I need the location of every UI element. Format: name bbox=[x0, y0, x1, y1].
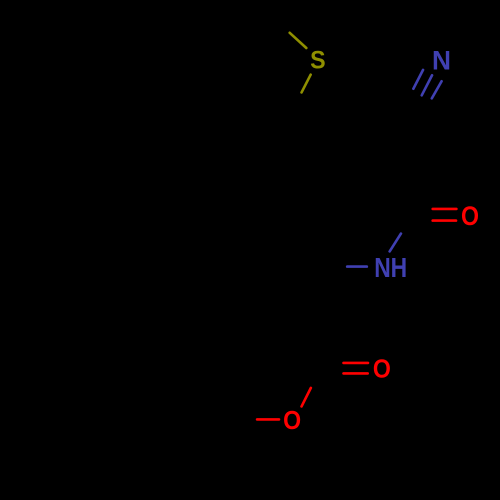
svg-text:O: O bbox=[461, 201, 479, 231]
svg-text:N: N bbox=[432, 46, 451, 76]
svg-text:NH: NH bbox=[374, 251, 407, 283]
svg-text:O: O bbox=[373, 356, 391, 384]
svg-text:S: S bbox=[310, 47, 326, 75]
svg-text:O: O bbox=[283, 407, 301, 435]
